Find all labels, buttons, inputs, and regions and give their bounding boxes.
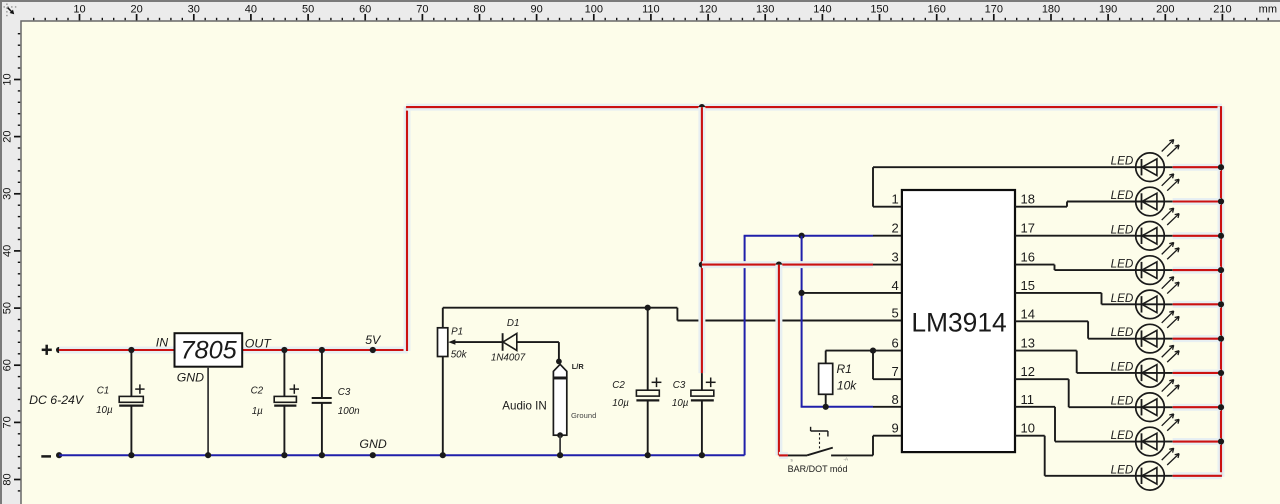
wire GND blue riser — [744, 236, 746, 456]
svg-text:1: 1 — [891, 192, 898, 207]
wire pin 14 to LED6 — [1015, 321, 1136, 338]
svg-text:5: 5 — [891, 306, 898, 321]
svg-text:GND: GND — [177, 370, 204, 384]
svg-text:Audio IN: Audio IN — [502, 399, 546, 412]
svg-text:LED: LED — [1111, 189, 1134, 202]
node 5V — [365, 333, 382, 353]
svg-text:LED: LED — [1111, 463, 1134, 476]
svg-text:LED: LED — [1111, 360, 1134, 373]
svg-text:BAR/DOT mód: BAR/DOT mód — [788, 464, 848, 474]
LED1 — [1136, 140, 1179, 182]
svg-text:1N4007: 1N4007 — [491, 353, 526, 364]
wire +V red: terminal to 7805 IN — [59, 347, 174, 354]
LED4 — [1136, 242, 1179, 284]
LED6 — [1136, 311, 1179, 353]
wire LED3 to +5V rail red — [1173, 233, 1224, 239]
svg-text:50: 50 — [2, 302, 14, 314]
top ruler ticks — [34, 3, 1269, 20]
svg-text:7: 7 — [891, 364, 898, 379]
svg-text:180: 180 — [1042, 3, 1060, 15]
svg-text:16: 16 — [1021, 250, 1035, 265]
svg-text:60: 60 — [2, 359, 14, 371]
diode D1 1N4007 — [503, 333, 559, 359]
switch S1 BAR/DOT mode — [788, 427, 902, 456]
origin marker icon — [4, 4, 18, 18]
wire +5V red: 7805 OUT to riser — [242, 347, 408, 354]
svg-text:6: 6 — [891, 336, 898, 351]
svg-text:10µ: 10µ — [96, 405, 113, 416]
svg-text:C1: C1 — [97, 386, 110, 397]
svg-text:10: 10 — [2, 73, 14, 85]
svg-text:110: 110 — [642, 3, 660, 15]
svg-text:1µ: 1µ — [252, 406, 263, 417]
svg-text:210: 210 — [1213, 3, 1231, 15]
svg-text:20: 20 — [2, 130, 14, 142]
wire red right rail to LEDs — [1218, 106, 1225, 477]
potentiometer P1 50k — [438, 308, 503, 459]
wire pin 18 to LED2 — [1015, 201, 1136, 206]
svg-text:-A: -A — [844, 457, 849, 462]
LED9 — [1136, 414, 1179, 456]
svg-text:5V: 5V — [365, 333, 382, 347]
LED7 — [1136, 345, 1179, 387]
wire 7805 GND to ground rail — [205, 367, 211, 459]
IC U1 LM3914 — [902, 190, 1015, 452]
wire pin 13 to LED7 — [1015, 351, 1136, 373]
svg-text:IN: IN — [156, 336, 168, 350]
svg-text:OUT: OUT — [245, 337, 272, 351]
wire LED1 to +5V rail red — [1173, 164, 1224, 170]
svg-text:90: 90 — [530, 3, 542, 15]
resistor R1 10k — [819, 351, 873, 407]
svg-text:4: 4 — [891, 278, 898, 293]
ruler band left — [0, 0, 21, 504]
capacitor C1 10u — [119, 347, 144, 458]
wire signal from P1 top to pin5 — [443, 308, 902, 321]
svg-text:40: 40 — [245, 3, 257, 15]
wire LED5 to +5V rail red — [1173, 301, 1224, 307]
capacitor C3 100n — [312, 347, 332, 458]
node + terminal DC input — [42, 345, 63, 355]
svg-text:11: 11 — [1021, 392, 1035, 407]
wire LED8 to +5V rail red — [1173, 404, 1224, 410]
wire pin7 REF OUT — [873, 351, 902, 380]
svg-text:70: 70 — [2, 416, 14, 428]
LED5 — [1136, 277, 1179, 319]
svg-text:LED: LED — [1111, 326, 1134, 339]
svg-text:130: 130 — [756, 3, 774, 15]
svg-text:50: 50 — [302, 3, 314, 15]
wire pin 15 to LED5 — [1015, 293, 1136, 304]
svg-text:LED: LED — [1111, 292, 1134, 305]
left ruler ticks — [2, 34, 21, 491]
node - terminal DC input — [41, 452, 62, 458]
svg-text:GND: GND — [359, 437, 386, 451]
svg-text:10: 10 — [73, 3, 85, 15]
svg-text:LED: LED — [1111, 395, 1134, 408]
svg-text:8: 8 — [891, 392, 898, 407]
svg-text:Ground: Ground — [571, 411, 596, 420]
wire LED2 to +5V rail red — [1173, 198, 1224, 204]
LED3 — [1136, 208, 1179, 250]
capacitor C2 10u (filter) — [636, 305, 661, 459]
svg-text:100n: 100n — [338, 406, 360, 417]
wire pin2 V- to GND blue — [744, 233, 902, 239]
svg-text:7805: 7805 — [180, 336, 237, 364]
capacitor C3 10u (supply) — [691, 378, 716, 459]
node GND label — [359, 437, 386, 458]
wire pin 17 to LED3 — [1015, 235, 1136, 237]
regulator U 7805 — [175, 333, 243, 367]
wire red top rail — [406, 104, 1222, 111]
svg-text:P1: P1 — [451, 327, 463, 338]
svg-text:mm: mm — [1259, 3, 1277, 15]
LED8 — [1136, 380, 1179, 422]
wire blue pins 2-4-8 riser — [801, 236, 803, 407]
svg-text:LED: LED — [1111, 258, 1134, 271]
ruler band top — [0, 0, 1280, 21]
svg-text:14: 14 — [1021, 306, 1035, 321]
svg-text:100: 100 — [585, 3, 603, 15]
wire LED6 to +5V rail red — [1173, 336, 1224, 342]
svg-text:10µ: 10µ — [612, 398, 629, 409]
svg-text:C2: C2 — [251, 386, 264, 397]
wire pin 12 to LED8 — [1015, 379, 1136, 407]
svg-text:C2: C2 — [612, 380, 625, 391]
wire red +5V drop to C3 — [699, 104, 705, 390]
svg-text:18: 18 — [1021, 192, 1035, 207]
wire pin 11 to LED9 — [1015, 407, 1136, 442]
svg-text:10: 10 — [1021, 421, 1035, 436]
svg-text:160: 160 — [928, 3, 946, 15]
svg-text:10µ: 10µ — [672, 398, 689, 409]
LED10 — [1136, 448, 1179, 490]
svg-text:120: 120 — [699, 3, 717, 15]
svg-text:170: 170 — [985, 3, 1003, 15]
svg-text:80: 80 — [2, 473, 14, 485]
svg-text:80: 80 — [473, 3, 485, 15]
svg-text:C3: C3 — [673, 380, 686, 391]
wire pin8 REF ADJ to GND blue — [801, 404, 902, 410]
svg-text:D1: D1 — [507, 318, 520, 329]
svg-text:190: 190 — [1099, 3, 1117, 15]
wire GND blue bottom rail — [59, 454, 745, 456]
svg-text:15: 15 — [1021, 278, 1035, 293]
svg-text:LM3914: LM3914 — [911, 307, 1006, 337]
svg-text:10k: 10k — [837, 378, 857, 392]
svg-text:40: 40 — [2, 245, 14, 257]
svg-text:3: 3 — [891, 250, 898, 265]
svg-text:12: 12 — [1021, 364, 1035, 379]
svg-text:13: 13 — [1021, 336, 1035, 351]
wire red drop to mode switch — [779, 265, 788, 456]
svg-text:C3: C3 — [338, 387, 351, 398]
wire LED4 to +5V rail red — [1173, 267, 1224, 273]
wire red riser to top rail — [404, 106, 411, 351]
svg-text:30: 30 — [188, 3, 200, 15]
svg-text:LED: LED — [1111, 223, 1134, 236]
wire pin6 RHI junction — [870, 348, 902, 354]
wire pin4 RLO to GND — [799, 290, 902, 296]
wire pin1 LED1 over the top — [873, 167, 1136, 207]
LED2 — [1136, 174, 1179, 216]
wire LED7 to +5V rail red — [1173, 370, 1224, 376]
svg-text:9: 9 — [891, 421, 898, 436]
wire pin3 V+ red — [699, 262, 902, 268]
svg-text:2: 2 — [891, 221, 898, 236]
wire LED9 to +5V rail red — [1173, 438, 1224, 444]
svg-text:LED: LED — [1111, 429, 1134, 442]
svg-text:LED: LED — [1111, 155, 1134, 168]
wire pin 10 to LED10 — [1015, 436, 1136, 476]
svg-text:17: 17 — [1021, 221, 1035, 236]
wire LED10 to +5V rail red — [1173, 472, 1222, 479]
svg-text:R1: R1 — [837, 362, 852, 376]
svg-text:30: 30 — [2, 188, 14, 200]
svg-text:L/R: L/R — [572, 362, 585, 371]
svg-text:DC 6-24V: DC 6-24V — [29, 393, 85, 407]
svg-text:50k: 50k — [451, 350, 468, 361]
svg-text:70: 70 — [416, 3, 428, 15]
svg-text:20: 20 — [130, 3, 142, 15]
svg-text:200: 200 — [1156, 3, 1174, 15]
svg-text:60: 60 — [359, 3, 371, 15]
capacitor C2 1u — [274, 347, 299, 458]
wire pin 16 to LED4 — [1015, 265, 1136, 270]
connector Audio IN jack — [553, 359, 566, 459]
svg-text:150: 150 — [870, 3, 888, 15]
svg-text:140: 140 — [813, 3, 831, 15]
window border — [0, 0, 1280, 2]
